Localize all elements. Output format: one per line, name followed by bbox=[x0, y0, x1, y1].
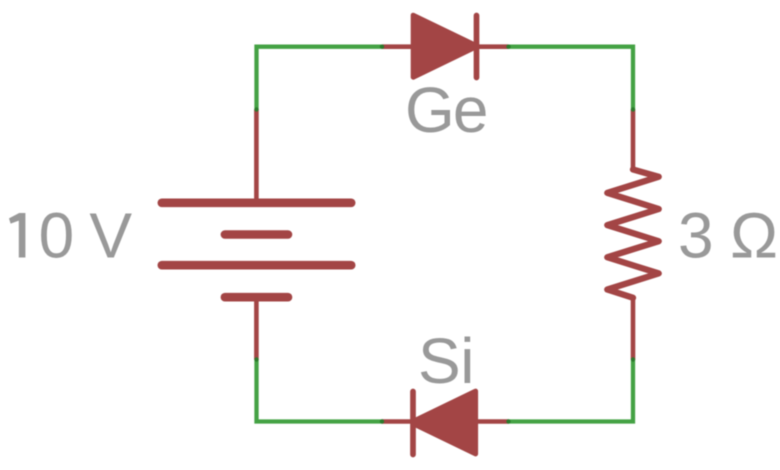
diode D2 (Si) triangle bbox=[417, 391, 476, 454]
wire: bottom-left green segment (battery minus to diode D2) bbox=[257, 360, 383, 422]
battery V1 plate 4 (short -) bbox=[225, 293, 288, 302]
battery V1 plate 1 (long +) bbox=[162, 199, 351, 208]
svg-text:Ge: Ge bbox=[405, 74, 489, 146]
diode D2 (Si) cathode lead bbox=[382, 419, 413, 424]
diode D1 (Ge) cathode lead bbox=[477, 44, 509, 49]
svg-text:Si: Si bbox=[418, 325, 475, 397]
resistor R1 top lead bbox=[631, 110, 636, 172]
node dot: right wire above resistor bbox=[631, 107, 635, 111]
battery V1 top lead bbox=[254, 110, 259, 204]
node dot: top wire left of D1 bbox=[380, 45, 384, 49]
node dot: left wire below battery bbox=[254, 357, 258, 361]
diode D2 (Si) anode lead bbox=[478, 419, 509, 424]
node dot: left wire above battery bbox=[254, 107, 258, 111]
diode D1 (Ge) triangle bbox=[413, 15, 472, 77]
label 10 V bbox=[9, 213, 25, 258]
wire: bottom-right green segment (diode D2 to resistor) bbox=[509, 360, 634, 422]
diode D1 (Ge) anode lead bbox=[382, 44, 413, 49]
node dot: bottom wire right of D2 bbox=[506, 419, 510, 423]
node dot: top wire right of D1 bbox=[506, 45, 510, 49]
wire: top-right green segment (diode D1 cathode to corner) bbox=[509, 47, 634, 110]
svg-text:3 Ω: 3 Ω bbox=[678, 200, 778, 272]
svg-text:0 V: 0 V bbox=[39, 200, 133, 272]
wire: top-left green segment (corner to diode D1 anode) bbox=[257, 47, 383, 110]
battery V1 bottom lead bbox=[254, 297, 259, 359]
diode D2 (Si) cathode bar bbox=[410, 392, 416, 455]
battery V1 plate 3 (long) bbox=[162, 261, 351, 270]
battery V1 plate 2 (short) bbox=[225, 230, 288, 239]
diode D1 (Ge) cathode bar bbox=[474, 16, 480, 78]
node dot: right wire below resistor bbox=[631, 357, 635, 361]
resistor R1 zigzag body bbox=[607, 170, 658, 298]
resistor R1 bottom lead bbox=[631, 298, 636, 360]
node dot: bottom wire left of D2 bbox=[380, 419, 384, 423]
